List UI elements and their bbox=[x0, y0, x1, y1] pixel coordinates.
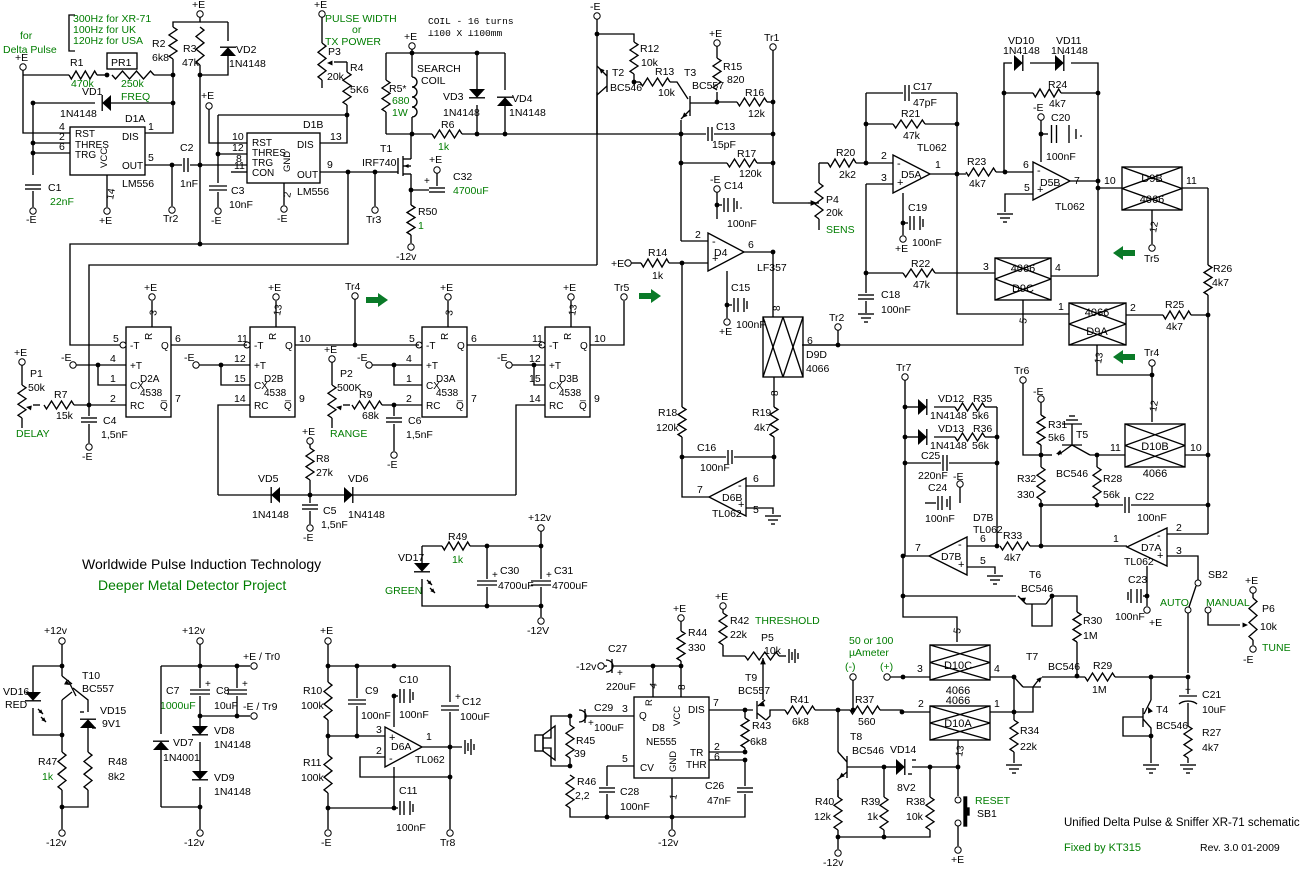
node Tr3 tap bbox=[373, 170, 378, 175]
svg-text:+12v: +12v bbox=[44, 625, 68, 637]
node Tr1 line R16 bbox=[771, 100, 776, 105]
svg-text:1N4001: 1N4001 bbox=[163, 752, 200, 764]
capacitor C28 100nF bbox=[607, 765, 634, 767]
wire Tr1 to P4 wiper bbox=[773, 202, 808, 204]
wire D4 out down to D9D bbox=[772, 252, 774, 317]
resistor R40 12k bbox=[837, 790, 839, 797]
wire pin 6 bbox=[33, 152, 70, 154]
svg-text:11: 11 bbox=[234, 160, 245, 172]
svg-text:R: R bbox=[144, 333, 155, 340]
wire OUT9 bbox=[320, 171, 390, 173]
wire pin 2 bbox=[33, 142, 70, 144]
svg-text:C5: C5 bbox=[323, 505, 337, 517]
svg-text:C11: C11 bbox=[399, 785, 418, 797]
svg-text:5: 5 bbox=[409, 333, 415, 345]
diode VD1 bbox=[33, 102, 95, 104]
svg-text:R42: R42 bbox=[730, 615, 749, 627]
svg-text:Q̅: Q̅ bbox=[579, 400, 587, 412]
wire gate T1 bbox=[390, 171, 398, 173]
svg-text:-T: -T bbox=[549, 341, 558, 352]
svg-text:D5B: D5B bbox=[1040, 177, 1060, 189]
diode VD12 bbox=[905, 406, 918, 408]
node T5 right bbox=[1095, 453, 1100, 458]
svg-text:10k: 10k bbox=[658, 87, 676, 99]
node D10B right bbox=[1206, 453, 1211, 458]
capacitor C10 100nF bbox=[393, 696, 395, 727]
terminal +E above R44 bbox=[678, 615, 684, 621]
terminal Tr4 bbox=[352, 293, 358, 299]
capacitor C29 100uF bbox=[579, 710, 586, 722]
svg-text:50k: 50k bbox=[28, 382, 46, 394]
svg-text:-: - bbox=[1037, 165, 1041, 177]
svg-text:5: 5 bbox=[1024, 182, 1030, 194]
svg-text:-12V: -12V bbox=[527, 625, 549, 637]
capacitor C9 100nF bbox=[356, 666, 358, 698]
wire vd mid bbox=[1030, 62, 1055, 64]
svg-text:220nF: 220nF bbox=[918, 470, 948, 482]
svg-text:VD12: VD12 bbox=[938, 393, 964, 405]
svg-text:330: 330 bbox=[688, 642, 706, 654]
pin 2 of D1B bbox=[283, 183, 285, 205]
svg-text:9: 9 bbox=[327, 159, 333, 171]
terminal -E below C1 bbox=[30, 208, 36, 214]
svg-text:R34: R34 bbox=[1020, 725, 1039, 737]
svg-text:R7: R7 bbox=[54, 389, 68, 401]
svg-text:-: - bbox=[958, 539, 962, 551]
wire T1 drain bbox=[410, 134, 412, 159]
wire D3B Q to Tr5 bbox=[590, 301, 624, 345]
svg-text:TL062: TL062 bbox=[973, 524, 1003, 536]
wire D10A pin2 bbox=[902, 711, 930, 713]
svg-text:Tr8: Tr8 bbox=[440, 837, 456, 849]
svg-text:⊥100 X ⊥100mm: ⊥100 X ⊥100mm bbox=[428, 28, 502, 39]
wire D4 output bbox=[744, 251, 773, 253]
svg-text:+T: +T bbox=[549, 361, 561, 372]
wire pin4 bbox=[652, 666, 654, 697]
svg-text:VCC: VCC bbox=[99, 148, 110, 168]
diode VD8 bbox=[199, 716, 201, 726]
node pin6 R33 bbox=[995, 544, 1000, 549]
svg-text:R31: R31 bbox=[1048, 419, 1067, 431]
node D10A in bbox=[900, 710, 905, 715]
terminal +E below C15 bbox=[726, 305, 728, 318]
svg-text:+E: +E bbox=[715, 591, 728, 603]
svg-text:COIL - 16 turns: COIL - 16 turns bbox=[428, 16, 514, 27]
resistor R45 39 bbox=[569, 716, 571, 725]
svg-text:6: 6 bbox=[59, 141, 65, 153]
svg-text:Tr2: Tr2 bbox=[829, 312, 845, 324]
node T8 drop bbox=[836, 708, 841, 713]
svg-text:R45: R45 bbox=[576, 735, 595, 747]
transistor T5 BC546 bbox=[1062, 444, 1082, 446]
terminal -E/Tr9 bbox=[251, 713, 257, 719]
svg-text:R30: R30 bbox=[1083, 615, 1102, 627]
svg-text:FREQ: FREQ bbox=[121, 91, 150, 103]
capacitor C26 47nF bbox=[709, 751, 745, 753]
svg-text:4066: 4066 bbox=[946, 695, 970, 707]
diode VD9 bbox=[199, 742, 201, 771]
wire meter minus down bbox=[852, 680, 854, 710]
svg-text:-12v: -12v bbox=[396, 251, 417, 263]
svg-text:D10A: D10A bbox=[944, 718, 972, 730]
svg-text:R12: R12 bbox=[640, 43, 659, 55]
svg-text:1: 1 bbox=[994, 698, 1000, 710]
svg-text:+E: +E bbox=[320, 625, 333, 637]
terminal meter plus bbox=[884, 674, 890, 680]
wire THRES pin12 bbox=[218, 153, 247, 155]
diode VD13 bbox=[905, 436, 918, 438]
svg-text:2: 2 bbox=[110, 393, 116, 405]
svg-text:TL062: TL062 bbox=[415, 754, 445, 766]
switch D10B 4066 bbox=[1125, 424, 1185, 467]
svg-text:1N4148: 1N4148 bbox=[443, 107, 480, 119]
ground D6B pin5 bbox=[765, 515, 781, 517]
resistor R34 22k bbox=[1013, 712, 1015, 720]
capacitor C1 bbox=[25, 184, 41, 186]
wire CX link bbox=[534, 365, 545, 385]
wire pin3 to R18 bbox=[681, 263, 683, 407]
svg-text:R37: R37 bbox=[855, 694, 874, 706]
svg-text:4: 4 bbox=[406, 353, 412, 365]
wire D7A pin2 bbox=[1167, 533, 1208, 535]
node R3 bottom bbox=[198, 73, 203, 78]
svg-text:C12: C12 bbox=[462, 696, 481, 708]
wire T3 emitter bbox=[680, 120, 682, 241]
wire D9D bottom pin bbox=[773, 377, 775, 407]
svg-text:C3: C3 bbox=[231, 185, 245, 197]
svg-text:100nF: 100nF bbox=[1046, 151, 1076, 163]
svg-text:820: 820 bbox=[727, 74, 745, 86]
node VD3 bottom bbox=[475, 132, 480, 137]
svg-text:10uF: 10uF bbox=[1202, 704, 1226, 716]
svg-text:100nF: 100nF bbox=[399, 709, 429, 721]
svg-text:+E: +E bbox=[895, 243, 908, 255]
svg-text:R32: R32 bbox=[1017, 473, 1036, 485]
wire R43 bottom bbox=[744, 748, 746, 752]
svg-text:R15: R15 bbox=[723, 61, 742, 73]
switch D9A 4066 bbox=[1069, 303, 1126, 345]
svg-text:1k: 1k bbox=[438, 141, 450, 153]
svg-text:DIS: DIS bbox=[688, 705, 705, 716]
svg-text:+T: +T bbox=[254, 361, 266, 372]
wire Tr6 down bbox=[1023, 383, 1041, 455]
svg-text:VD8: VD8 bbox=[214, 725, 235, 737]
terminal -12v left of C27 bbox=[598, 663, 604, 669]
svg-text:13: 13 bbox=[330, 131, 342, 143]
node R38 top bbox=[928, 765, 933, 770]
resistor R15 820 bbox=[716, 46, 718, 58]
terminal +E R14 bbox=[625, 260, 631, 266]
resistor R42 22k bbox=[722, 609, 724, 613]
resistor R48 8k2 bbox=[84, 752, 92, 790]
resistor R17 120k bbox=[681, 162, 727, 164]
wire D4 pin2 bbox=[681, 240, 708, 242]
terminal +E below D1A bbox=[104, 208, 110, 214]
svg-text:C24: C24 bbox=[928, 482, 947, 494]
resistor R30 1M bbox=[1073, 612, 1081, 642]
wire VD14 right bbox=[912, 766, 958, 768]
svg-text:R27: R27 bbox=[1202, 727, 1221, 739]
svg-text:-12v: -12v bbox=[823, 857, 844, 869]
svg-text:TX POWER: TX POWER bbox=[325, 36, 381, 48]
svg-text:C7: C7 bbox=[166, 685, 180, 697]
svg-text:10uF: 10uF bbox=[214, 700, 238, 712]
capacitor C16 100nF bbox=[682, 456, 726, 458]
svg-text:SB1: SB1 bbox=[977, 808, 997, 820]
wire R18 bottom bbox=[681, 437, 683, 457]
node out d6a bbox=[448, 745, 453, 750]
svg-text:LM556: LM556 bbox=[122, 178, 154, 190]
node D5A out bbox=[955, 172, 960, 177]
transistor T6 BC546 bbox=[1026, 603, 1046, 605]
svg-text:5K6: 5K6 bbox=[350, 84, 369, 96]
svg-text:2: 2 bbox=[406, 393, 412, 405]
svg-text:R5*: R5* bbox=[389, 83, 407, 95]
svg-text:3: 3 bbox=[983, 261, 989, 273]
svg-text:TUNE: TUNE bbox=[1262, 642, 1291, 654]
resistor R12 10k bbox=[630, 42, 638, 74]
capacitor C25 220nF bbox=[905, 462, 941, 464]
wire D9B pin10 bbox=[1098, 187, 1122, 189]
wire bus2 bbox=[89, 265, 597, 405]
svg-text:1k: 1k bbox=[42, 771, 54, 783]
svg-text:+E: +E bbox=[440, 282, 453, 294]
wire SB2 auto down bbox=[1187, 613, 1189, 673]
node c31 top bbox=[539, 544, 544, 549]
svg-text:P1: P1 bbox=[30, 368, 43, 380]
node R24 left bbox=[1002, 91, 1007, 96]
wire D7B out down bbox=[903, 556, 957, 642]
pot P4 20k bbox=[808, 202, 819, 204]
svg-text:15: 15 bbox=[529, 373, 541, 385]
svg-text:+E: +E bbox=[201, 90, 214, 102]
resistor R2 bbox=[169, 27, 177, 59]
wire LED bottom bbox=[33, 708, 60, 735]
wire top rail3 bbox=[328, 665, 450, 667]
svg-text:R33: R33 bbox=[1003, 530, 1022, 542]
node VD3 top bbox=[475, 51, 480, 56]
svg-text:2k2: 2k2 bbox=[839, 169, 856, 181]
terminal +E above P6 bbox=[1250, 587, 1256, 593]
svg-text:100uF: 100uF bbox=[460, 711, 490, 723]
svg-text:RC: RC bbox=[254, 401, 268, 412]
svg-text:20k: 20k bbox=[327, 71, 345, 83]
svg-text:+E: +E bbox=[1149, 617, 1162, 629]
svg-text:T2: T2 bbox=[612, 67, 624, 79]
svg-text:R25: R25 bbox=[1165, 299, 1184, 311]
wire SB1 bottom bbox=[957, 826, 959, 846]
svg-text:100nF: 100nF bbox=[1137, 512, 1167, 524]
ground T4 bbox=[1143, 764, 1159, 766]
svg-text:6: 6 bbox=[980, 533, 986, 545]
svg-text:Q: Q bbox=[285, 341, 293, 352]
node SB1 top bbox=[956, 765, 961, 770]
wire R23 to pin6 bbox=[996, 171, 1033, 173]
wire T8 base row bbox=[847, 766, 884, 768]
capacitor C20 100nF bbox=[1040, 120, 1042, 134]
diode VD10 bbox=[1014, 55, 1023, 71]
svg-text:or: or bbox=[352, 24, 362, 36]
node R21 left bbox=[864, 122, 869, 127]
svg-text:4700uF: 4700uF bbox=[498, 580, 534, 592]
ground below C18 bbox=[858, 313, 874, 315]
svg-text:D5A: D5A bbox=[901, 169, 921, 181]
terminal +E below C23 bbox=[1146, 596, 1148, 606]
wire R15 to R16 bbox=[717, 101, 737, 103]
wire R3 bottom bbox=[199, 65, 201, 75]
node R32 bottom bbox=[1039, 503, 1044, 508]
svg-text:CON: CON bbox=[252, 168, 274, 179]
terminal +E/Tr0 bbox=[251, 663, 257, 669]
cap to ground D6A out bbox=[464, 740, 466, 754]
svg-text:SEARCH: SEARCH bbox=[417, 63, 461, 75]
resistor R6 1k bbox=[432, 130, 462, 138]
wire T8 emitter down bbox=[837, 780, 839, 797]
svg-text:+E: +E bbox=[268, 282, 281, 294]
svg-text:D6B: D6B bbox=[722, 492, 742, 504]
node pin3 row a bbox=[326, 734, 331, 739]
wire R16 to Tr1 bbox=[767, 101, 773, 103]
node T6 collector bbox=[1050, 594, 1055, 599]
svg-text:-E: -E bbox=[321, 837, 332, 849]
resistor R21 47k bbox=[866, 123, 893, 125]
terminal +E below C19 bbox=[902, 223, 904, 235]
svg-text:C8: C8 bbox=[216, 685, 230, 697]
wire T6 to R30 bbox=[1052, 596, 1077, 612]
terminal +E above P2 bbox=[329, 356, 335, 362]
terminal +E above D2A bbox=[149, 294, 155, 300]
wire D2B Q to D3A -T bbox=[295, 344, 419, 346]
transistor T10 BC557 bbox=[68, 680, 76, 696]
svg-text:R: R bbox=[268, 333, 279, 340]
svg-text:DIS: DIS bbox=[297, 140, 314, 151]
node out596 bbox=[901, 594, 906, 599]
resistor R1 bbox=[69, 71, 97, 79]
node rail3 a bbox=[326, 664, 331, 669]
terminal Tr5 bbox=[621, 294, 627, 300]
svg-text:R49: R49 bbox=[448, 531, 467, 543]
svg-text:TR: TR bbox=[690, 748, 703, 759]
svg-text:R: R bbox=[563, 333, 574, 340]
wire bottom rail T8 bbox=[838, 830, 930, 837]
svg-text:AUTO: AUTO bbox=[1160, 597, 1189, 609]
wire T5 to D10B pin11 bbox=[1090, 454, 1125, 456]
svg-text:Fixed by KT315: Fixed by KT315 bbox=[1064, 842, 1141, 854]
svg-text:100nF: 100nF bbox=[1115, 611, 1145, 623]
svg-text:TL062: TL062 bbox=[712, 508, 742, 520]
svg-text:1N4148: 1N4148 bbox=[60, 108, 97, 120]
svg-text:Tr2: Tr2 bbox=[163, 213, 179, 225]
svg-text:C31: C31 bbox=[554, 565, 573, 577]
terminal Tr8 bbox=[447, 830, 453, 836]
svg-text:VD4: VD4 bbox=[512, 93, 533, 105]
svg-text:VD3: VD3 bbox=[443, 91, 464, 103]
svg-text:R4: R4 bbox=[350, 62, 364, 74]
diode VD5 bbox=[271, 487, 280, 503]
op-amp D5A bbox=[893, 155, 930, 193]
svg-text:3: 3 bbox=[622, 703, 628, 715]
svg-text:RC: RC bbox=[549, 401, 563, 412]
wire D10A pin13 bbox=[957, 740, 959, 767]
node R24 right bbox=[1096, 91, 1101, 96]
svg-text:Rev. 3.0 01-2009: Rev. 3.0 01-2009 bbox=[1200, 842, 1280, 854]
svg-text:R: R bbox=[644, 699, 655, 706]
svg-text:1,5nF: 1,5nF bbox=[406, 429, 433, 441]
svg-text:4: 4 bbox=[994, 663, 1000, 675]
svg-text:-E: -E bbox=[590, 1, 601, 13]
svg-text:C19: C19 bbox=[908, 202, 927, 214]
svg-text:Tr4: Tr4 bbox=[345, 281, 361, 293]
svg-text:4066: 4066 bbox=[806, 363, 830, 375]
svg-text:56k: 56k bbox=[1103, 489, 1121, 501]
svg-text:8V2: 8V2 bbox=[897, 782, 916, 794]
wire R26 rail bbox=[1207, 188, 1209, 265]
node C25 left bbox=[903, 461, 908, 466]
pot P2 wiper arrow bbox=[343, 404, 350, 406]
terminal -E above C14 bbox=[714, 186, 720, 192]
wire D6B pin6 bbox=[746, 457, 774, 486]
wire bottom bus bbox=[218, 494, 516, 496]
svg-text:C14: C14 bbox=[724, 180, 743, 192]
svg-text:D1B: D1B bbox=[303, 119, 323, 131]
svg-text:5: 5 bbox=[622, 753, 628, 765]
wire T8 collector drop bbox=[837, 710, 839, 752]
wire mid rail2 bbox=[200, 715, 237, 717]
op-amp D7B bbox=[929, 537, 967, 575]
terminal -E D6A block bbox=[327, 808, 329, 829]
wire vd rail up bbox=[1004, 63, 1012, 172]
wire pin3 rail down bbox=[865, 184, 867, 273]
svg-text:P4: P4 bbox=[826, 194, 839, 206]
node C22 right bbox=[1206, 503, 1211, 508]
svg-text:D7B: D7B bbox=[973, 512, 993, 524]
resistor R28 56k bbox=[1096, 455, 1098, 467]
svg-text:SENS: SENS bbox=[826, 224, 855, 236]
svg-text:T3: T3 bbox=[684, 67, 696, 79]
node T1 source bbox=[409, 188, 414, 193]
node bus1 tap bbox=[346, 170, 351, 175]
svg-text:VCC: VCC bbox=[672, 706, 683, 726]
wire D3B pin14 bbox=[516, 405, 545, 495]
svg-text:12: 12 bbox=[234, 353, 246, 365]
capacitor C19 100nF bbox=[902, 193, 904, 223]
svg-text:D9B: D9B bbox=[1141, 173, 1162, 185]
resistor R33 4k7 bbox=[1000, 542, 1030, 550]
wire D7B pin5 bbox=[967, 567, 995, 574]
ground D5B pin5 bbox=[997, 213, 1013, 215]
wire pin3 row bbox=[328, 735, 385, 737]
wire D2A Q to D2B -T bbox=[171, 344, 247, 346]
svg-text:14: 14 bbox=[234, 393, 246, 405]
svg-text:120k: 120k bbox=[656, 422, 680, 434]
svg-text:4k7: 4k7 bbox=[754, 422, 771, 434]
svg-text:500K: 500K bbox=[337, 382, 362, 394]
ground R27 bbox=[1180, 764, 1196, 766]
svg-text:10: 10 bbox=[299, 333, 311, 345]
svg-text:R11: R11 bbox=[303, 757, 322, 769]
svg-text:T9: T9 bbox=[745, 672, 757, 684]
resistor R7 15k bbox=[44, 401, 74, 409]
wire R30 bottom bbox=[1076, 642, 1078, 676]
capacitor C7 1000uF bbox=[199, 666, 201, 688]
node R1-PR1 bbox=[105, 73, 110, 78]
svg-text:R24: R24 bbox=[1048, 79, 1067, 91]
svg-text:VD13: VD13 bbox=[938, 423, 964, 435]
svg-text:-E: -E bbox=[710, 174, 721, 186]
terminal Tr5 right bbox=[1149, 245, 1155, 251]
resistor R32 330 bbox=[1040, 455, 1042, 467]
wire DIS row bbox=[709, 709, 753, 711]
